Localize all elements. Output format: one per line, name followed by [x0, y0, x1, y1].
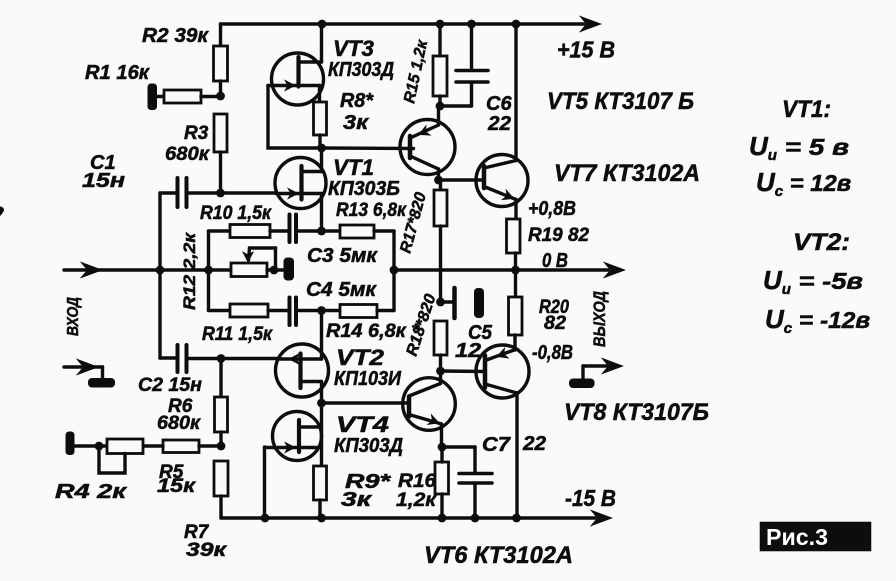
svg-text:R3: R3: [184, 123, 209, 144]
wire input vertical: [158, 193, 161, 358]
svg-text:+15 В: +15 В: [557, 37, 615, 63]
wire input node to divider bracket: [160, 268, 209, 271]
resistor R10: [209, 225, 289, 238]
resistor R16: [435, 447, 449, 518]
node C5 tap: [436, 298, 445, 307]
resistor R5: [143, 440, 221, 453]
node output mid junction: [390, 266, 399, 275]
svg-text:22: 22: [487, 113, 511, 135]
svg-text:VT2:: VT2:: [793, 229, 850, 256]
svg-text:15к: 15к: [157, 476, 197, 497]
svg-text:VT4: VT4: [336, 412, 389, 437]
svg-text:C4 5мк: C4 5мк: [306, 279, 377, 301]
svg-text:КП303Б: КП303Б: [328, 178, 400, 200]
resistor R13: [322, 225, 395, 238]
resistor R11: [209, 304, 289, 317]
resistor R17: [434, 180, 447, 302]
resistor R3: [214, 114, 227, 193]
transistor VT3 (JFET KP303D): [268, 24, 324, 105]
svg-text:C7: C7: [482, 434, 511, 456]
svg-text:R13 6,8к: R13 6,8к: [336, 200, 407, 221]
svg-text:R14 6,8к *: R14 6,8к *: [326, 321, 421, 342]
capacitor C7: [442, 447, 492, 518]
node C2/R6 junction: [217, 354, 226, 363]
ground output terminal: [569, 359, 622, 388]
svg-text:680к: 680к: [165, 144, 210, 165]
svg-text:R1 16к: R1 16к: [85, 62, 150, 84]
resistor R20: [509, 270, 523, 350]
svg-text:R4 2к: R4 2к: [55, 481, 127, 503]
resistor R19: [507, 219, 521, 270]
node bottom-rail junction dots: [261, 514, 521, 523]
svg-text:22: 22: [522, 433, 546, 455]
svg-text:0 В: 0 В: [542, 250, 568, 272]
capacitor C5: [441, 288, 485, 318]
svg-text:39к: 39к: [186, 540, 228, 561]
resistor R8: [314, 102, 327, 148]
svg-text:C3 5мк: C3 5мк: [307, 245, 378, 267]
svg-text:КП303Д: КП303Д: [334, 435, 403, 457]
node VT1 drain / R8 / VT3 gate: [317, 144, 326, 153]
svg-text:VT7 КТ3102А: VT7 КТ3102А: [554, 160, 700, 187]
svg-text:КП103И: КП103И: [334, 368, 402, 390]
svg-text:ВХОД: ВХОД: [65, 297, 82, 336]
resistor R12 trimmer: [209, 248, 295, 281]
wire R13/R14 right vertical: [392, 231, 395, 311]
svg-text:Uс = 12в: Uс = 12в: [756, 167, 851, 200]
resistor R1 (with terminal bar): [148, 84, 221, 111]
svg-text:C6: C6: [486, 93, 512, 115]
rail +15V: [221, 17, 601, 31]
svg-text:3к: 3к: [343, 112, 369, 134]
svg-text:R8*: R8*: [340, 90, 374, 112]
svg-text:R2 39к: R2 39к: [142, 25, 209, 47]
svg-text:-0,8В: -0,8В: [532, 342, 573, 364]
node VT6 emitter / R16 / C7: [438, 443, 447, 452]
capacitor C4: [290, 298, 322, 326]
capacitor C1: [160, 178, 276, 207]
wire input to node: [64, 263, 160, 277]
node VT1 source / C3 / R13: [317, 227, 326, 236]
svg-text:+0,8В: +0,8В: [528, 198, 576, 220]
svg-text:VT2: VT2: [336, 345, 385, 370]
transistor VT6 (NPN KT3102A): [403, 371, 456, 447]
svg-text:C2 15н: C2 15н: [138, 375, 203, 396]
node R18 / VT8 base / VT6 collector: [436, 367, 445, 376]
capacitor C2: [160, 345, 278, 372]
capacitor C6: [440, 24, 488, 106]
resistor R7: [214, 461, 228, 518]
svg-text:R12 2,2к: R12 2,2к: [181, 231, 199, 310]
svg-text:-15 В: -15 В: [565, 485, 616, 511]
node R1/R2/R3 junction: [216, 92, 225, 101]
node input junction: [156, 266, 165, 275]
transistor VT2 (JFET KP103I): [276, 311, 329, 404]
svg-text:1,2к: 1,2к: [396, 490, 438, 511]
svg-text:VT6 КТ3102А: VT6 КТ3102А: [424, 542, 573, 569]
resistor R18: [434, 321, 447, 371]
svg-text:15н: 15н: [82, 170, 125, 192]
transistor VT8 (PNP KT3107B): [476, 345, 529, 518]
svg-text:82: 82: [544, 313, 566, 334]
svg-text:R11 1,5к: R11 1,5к: [202, 324, 273, 345]
wire node to VT6 base: [322, 401, 410, 404]
node VT5 collector / R17 / VT7 base: [434, 176, 443, 185]
wire node down to R9: [320, 403, 323, 466]
resistor R15: [433, 24, 447, 106]
svg-text:VT1:: VT1:: [782, 96, 831, 123]
node bracket junction: [204, 266, 213, 275]
rail 0V output: [394, 263, 624, 277]
resistor R14: [322, 305, 395, 318]
svg-text:Рис.3: Рис.3: [766, 524, 828, 550]
ground input terminal: [64, 360, 115, 388]
transistor VT4 (JFET KP303D): [265, 412, 322, 461]
node R5/R6/R7 junction: [217, 442, 226, 451]
resistor R6: [215, 359, 228, 447]
resistor R4 trimmer (with terminal bar): [66, 432, 144, 474]
svg-text:12: 12: [455, 340, 481, 362]
wire bracket vertical: [207, 231, 210, 311]
svg-text:3к: 3к: [341, 489, 372, 511]
node top-rail junction dots: [318, 20, 521, 29]
svg-text:Uи = -5в: Uи = -5в: [763, 265, 863, 298]
svg-text:R15 1,2к: R15 1,2к: [401, 38, 431, 105]
transistor VT7 (NPN KT3102A): [476, 24, 528, 219]
svg-text:VT1: VT1: [333, 155, 374, 180]
wire node to VT7 base: [439, 178, 485, 181]
node C1/R3 junction: [216, 189, 225, 198]
capacitor C3: [290, 215, 322, 243]
resistor R2: [214, 24, 228, 96]
transistor VT5 (PNP KT3107B): [400, 106, 455, 180]
wire VT4 gate down to -15V rail: [263, 447, 266, 518]
figure caption Ris.3: [760, 522, 871, 551]
svg-text:VT8 КТ3107Б: VT8 КТ3107Б: [564, 399, 709, 426]
wire node to VT8 base: [441, 369, 486, 373]
node VT2 drain / VT4 / R9 / VT6 base: [317, 399, 326, 408]
node 0V rail / R19 / R20: [511, 266, 520, 275]
wire VT3 gate to node: [268, 86, 318, 149]
svg-text:VT5 КТ3107 Б: VT5 КТ3107 Б: [547, 88, 694, 115]
resistor R9: [314, 466, 327, 518]
scan speck left edge: [0, 207, 3, 215]
svg-text:680к: 680к: [157, 413, 201, 434]
rail -15V: [221, 511, 611, 525]
node R15 / C6 / VT5 emitter: [436, 102, 445, 111]
svg-text:ВЫХОД: ВЫХОД: [591, 291, 609, 347]
svg-text:Uи = 5 в: Uи = 5 в: [749, 131, 849, 164]
transistor VT1 (JFET KP303B): [275, 148, 326, 231]
svg-text:R16: R16: [398, 471, 436, 492]
svg-text:R10 1,5к: R10 1,5к: [200, 203, 272, 224]
svg-text:Uс = -12в: Uс = -12в: [765, 304, 870, 337]
svg-text:R19 82: R19 82: [528, 225, 589, 246]
wire node to VT5 base: [322, 146, 414, 150]
svg-text:КП303Д: КП303Д: [328, 59, 394, 81]
node VT2 source / C4 / R14: [317, 306, 326, 315]
svg-text:VT3: VT3: [333, 36, 374, 61]
